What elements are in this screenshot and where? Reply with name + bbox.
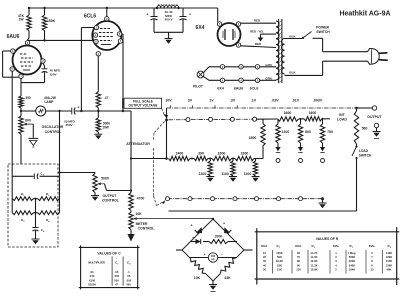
wire grid bus 6AU6-6CL6 bbox=[28, 39, 97, 41]
pin bottom of 6CL6 bbox=[96, 52, 100, 56]
svg-text:X1000: X1000 bbox=[88, 283, 96, 287]
contact deck2 grounded bbox=[319, 197, 327, 208]
svg-text:1100: 1100 bbox=[221, 172, 229, 176]
diode meter branch bbox=[192, 236, 201, 244]
svg-text:11.3K: 11.3K bbox=[310, 263, 317, 267]
wire rail2 from trunk2 bbox=[131, 158, 167, 160]
svg-text:.01V: .01V bbox=[292, 99, 300, 103]
label 3V bbox=[188, 99, 193, 103]
svg-text:1100: 1100 bbox=[199, 172, 207, 176]
svg-text:1600: 1600 bbox=[218, 152, 226, 156]
title Heathkit AG-9A bbox=[339, 11, 390, 18]
svg-text:43K: 43K bbox=[224, 276, 231, 280]
svg-text:Heathkit AG-9A: Heathkit AG-9A bbox=[339, 11, 390, 18]
svg-text:143K: 143K bbox=[386, 251, 392, 255]
label BLK bottom bbox=[289, 71, 296, 75]
table VALUES OF C bbox=[79, 245, 140, 289]
svg-text:560K: 560K bbox=[349, 255, 355, 259]
resistor 5000 10W bbox=[96, 111, 110, 134]
svg-text:X10: X10 bbox=[90, 274, 95, 278]
resistor 560 INT LOAD bbox=[354, 107, 367, 144]
svg-text:10V: 10V bbox=[165, 99, 172, 103]
svg-text:150K: 150K bbox=[47, 19, 56, 23]
svg-text:+: + bbox=[78, 106, 80, 110]
contact 1V deck1 bbox=[209, 117, 213, 121]
capacitor 40MFD 150V bbox=[39, 65, 61, 76]
dashed gang link upper bbox=[154, 122, 165, 141]
terminal OUTPUT bbox=[367, 106, 382, 119]
svg-text:20: 20 bbox=[263, 255, 266, 259]
shunt resistor 1100 d bbox=[276, 119, 290, 147]
svg-text:2400: 2400 bbox=[176, 152, 184, 156]
ground 5000 resistor bbox=[94, 134, 102, 139]
potentiometer 600 OSCILLATOR CONTROL bbox=[19, 116, 64, 138]
wire pin1 to left bus bbox=[3, 50, 11, 52]
svg-text:DIAL: DIAL bbox=[261, 244, 268, 248]
svg-text:14.3K: 14.3K bbox=[310, 255, 317, 259]
svg-text:6X4: 6X4 bbox=[217, 87, 223, 91]
svg-text:RED: RED bbox=[254, 19, 261, 23]
svg-text:.1V: .1V bbox=[251, 99, 257, 103]
svg-text:12.3K: 12.3K bbox=[310, 259, 317, 263]
wire 6CL6 grid feedback bbox=[80, 28, 94, 113]
tick 1V bbox=[214, 105, 216, 108]
svg-text:14.7K: 14.7K bbox=[310, 251, 317, 255]
ground shunt a bbox=[206, 177, 214, 182]
contact below shunt f bbox=[321, 159, 325, 163]
pin 4 6AU6 heater bbox=[239, 78, 243, 82]
transformer core bbox=[278, 19, 282, 83]
wire 6CL6 top pin to B+ bbox=[106, 7, 108, 17]
wire bridge inner top bbox=[190, 241, 237, 243]
wire bridge left stub bbox=[176, 249, 182, 251]
wire twin-T top branch bbox=[12, 175, 59, 177]
wire twin-T mid junction2 bbox=[34, 212, 38, 214]
resistor 390 ladder bbox=[194, 152, 208, 161]
resistor 1600 ladder b bbox=[235, 152, 254, 161]
meter 200uA bbox=[204, 253, 224, 262]
wire 6CL6 cathode down bbox=[97, 56, 99, 92]
svg-text:1V: 1V bbox=[209, 99, 214, 103]
contact below shunt e bbox=[299, 159, 303, 163]
wire subnet rail a bbox=[257, 118, 278, 120]
label 6AU6 bbox=[7, 34, 20, 40]
svg-text:.05: .05 bbox=[127, 274, 131, 278]
svg-text:70: 70 bbox=[297, 255, 300, 259]
wire lamp to cap bbox=[46, 110, 72, 112]
svg-text:450 V: 450 V bbox=[164, 17, 173, 21]
filter choke bbox=[156, 4, 180, 9]
wire B+ top rail bbox=[29, 7, 218, 9]
wire rail2 b bbox=[208, 158, 212, 160]
svg-text:80: 80 bbox=[297, 259, 300, 263]
svg-text:10.9K: 10.9K bbox=[310, 267, 317, 271]
svg-text:6X4: 6X4 bbox=[196, 25, 205, 31]
arrow ground shunt e bbox=[298, 147, 303, 152]
resistor 1600 ladder a bbox=[212, 152, 232, 161]
svg-text:OUTPUT: OUTPUT bbox=[367, 115, 382, 119]
pin 5 6CL6 heater bbox=[255, 78, 259, 82]
svg-text:.003V: .003V bbox=[313, 99, 323, 103]
capacitor 40-40 MFD 450V left bbox=[147, 8, 158, 32]
pin upper-right of 6CL6 bbox=[117, 32, 121, 36]
svg-text:1800: 1800 bbox=[249, 136, 257, 140]
resistor R3 twin-T bbox=[12, 211, 33, 223]
wire left bus down to twin-T bbox=[11, 77, 13, 176]
svg-text:47: 47 bbox=[115, 283, 118, 287]
svg-text:1600: 1600 bbox=[284, 111, 292, 115]
resistor 4700 bbox=[129, 193, 145, 211]
svg-text:LOAD: LOAD bbox=[359, 149, 369, 153]
ground shunt c bbox=[252, 177, 260, 182]
svg-text:+: + bbox=[39, 65, 41, 69]
svg-text:DIAL: DIAL bbox=[369, 244, 376, 248]
label .3V bbox=[230, 99, 236, 103]
wire trunk2 plate line bbox=[130, 111, 132, 193]
contact deck2 4 bbox=[233, 197, 237, 201]
svg-text:1W: 1W bbox=[18, 18, 24, 22]
svg-text:10W: 10W bbox=[102, 125, 109, 129]
svg-text:6CL6: 6CL6 bbox=[250, 87, 259, 91]
wire bridge right stub bbox=[244, 249, 253, 251]
wire B+ down to 6X4 pin7 bbox=[217, 8, 219, 22]
label 6CL6 bbox=[84, 14, 96, 20]
svg-text:750: 750 bbox=[327, 130, 333, 134]
wire meter line to bridge top bbox=[212, 218, 214, 220]
resistor 47K 1W bbox=[18, 14, 31, 31]
svg-text:390: 390 bbox=[25, 96, 31, 100]
wire cap bottom rail bbox=[154, 31, 183, 33]
label ATTENUATOR bbox=[126, 142, 150, 146]
label 6AU6 heater bbox=[234, 87, 243, 91]
svg-text:1600: 1600 bbox=[309, 111, 317, 115]
label 10V bbox=[165, 99, 172, 103]
power switch bbox=[302, 26, 330, 40]
svg-text:150V: 150V bbox=[49, 72, 56, 76]
node osc junction bbox=[20, 108, 22, 116]
svg-text:100K: 100K bbox=[276, 251, 282, 255]
svg-text:BLK: BLK bbox=[289, 71, 296, 75]
FULL SCALE OUTPUT VOLTAGE box bbox=[123, 98, 162, 108]
svg-text:600: 600 bbox=[25, 119, 31, 123]
potentiometer 5000 OUTPUT CONTROL bbox=[93, 173, 131, 203]
tick 3V bbox=[192, 105, 194, 108]
resistor 2000 bbox=[209, 235, 228, 244]
wire C4 to ground bbox=[35, 231, 37, 239]
pin 7 of 6X4 bbox=[217, 22, 221, 26]
wire twin-T left node bbox=[11, 176, 13, 212]
svg-text:560: 560 bbox=[362, 127, 368, 131]
wire heater bottom rail bbox=[203, 76, 276, 80]
svg-text:CONTROL: CONTROL bbox=[45, 130, 62, 134]
wire left bracket bbox=[3, 51, 19, 77]
tube 6X4 envelope bbox=[218, 23, 241, 46]
pin upper-left of 6CL6 bbox=[94, 25, 98, 29]
transformer secondary winding bbox=[276, 21, 279, 80]
pin 6 of 6AU6 bbox=[25, 41, 29, 45]
label GRN top bbox=[265, 63, 271, 67]
shunt resistor 1100 b bbox=[221, 159, 235, 177]
capacitor C4 bbox=[33, 228, 46, 234]
AC line plug bbox=[368, 49, 388, 65]
svg-text:1600: 1600 bbox=[241, 152, 249, 156]
svg-text:47: 47 bbox=[105, 96, 109, 100]
wire pin1 to transformer RED bbox=[241, 19, 276, 24]
wire subnet rail b bbox=[299, 118, 305, 120]
svg-text:OUTPUT VOLTAGE: OUTPUT VOLTAGE bbox=[129, 104, 158, 108]
wire contact rail deck1 bbox=[169, 118, 253, 121]
wire rail2 a bbox=[190, 158, 194, 160]
svg-text:OUTPUT: OUTPUT bbox=[103, 194, 118, 198]
wire common line bbox=[169, 210, 357, 212]
svg-text:6CL6: 6CL6 bbox=[84, 14, 96, 20]
svg-text:194K: 194K bbox=[349, 267, 355, 271]
svg-text:800: 800 bbox=[305, 130, 311, 134]
svg-text:INT: INT bbox=[339, 113, 346, 117]
svg-text:MULTIPLIER: MULTIPLIER bbox=[88, 260, 105, 264]
svg-text:+: + bbox=[147, 13, 149, 17]
svg-text:1100: 1100 bbox=[282, 130, 290, 134]
svg-text:BLK: BLK bbox=[289, 34, 296, 38]
wire heater top rail bbox=[203, 67, 276, 73]
pin 1 of 6X4 bbox=[236, 22, 240, 26]
svg-text:+: + bbox=[204, 253, 206, 257]
svg-text:µA: µA bbox=[211, 257, 214, 261]
contact deck2 7 bbox=[299, 197, 303, 201]
resistor 390 bbox=[19, 96, 31, 108]
dashed box twin-T bbox=[8, 164, 58, 247]
wire load switch down bbox=[356, 158, 358, 211]
wire twin-T mid junction bbox=[34, 198, 38, 200]
tube 6X4 internals bbox=[223, 29, 235, 40]
resistor R4 twin-T bbox=[38, 211, 60, 223]
label 1V bbox=[209, 99, 214, 103]
svg-text:50: 50 bbox=[263, 267, 266, 271]
svg-text:40: 40 bbox=[263, 263, 266, 267]
svg-text:115K: 115K bbox=[386, 259, 392, 263]
svg-text:100: 100 bbox=[296, 267, 301, 271]
wire output line dash-dot bbox=[167, 107, 357, 109]
ground twin-T bbox=[32, 239, 40, 244]
tube 6AU6 envelope bbox=[13, 46, 42, 75]
svg-text:RED - YEL: RED - YEL bbox=[250, 29, 264, 33]
pin 6 of 6X4 bbox=[236, 43, 240, 47]
contact deck2 6 bbox=[277, 197, 281, 201]
shunt resistor 800 bbox=[298, 119, 311, 147]
pin 5 of 6AU6 bbox=[10, 67, 14, 71]
tick 10V bbox=[170, 105, 172, 108]
contact deck2 1 bbox=[166, 197, 170, 201]
wire 47K top stub bbox=[28, 7, 30, 15]
resistor 1600 subnet a bbox=[278, 111, 299, 121]
svg-text:23.2K: 23.2K bbox=[276, 259, 283, 263]
svg-text:90: 90 bbox=[297, 263, 300, 267]
svg-text:RED: RED bbox=[255, 42, 262, 46]
svg-text:30: 30 bbox=[263, 259, 266, 263]
wire pin5 stub bbox=[11, 71, 13, 77]
resistor 150K bbox=[42, 15, 55, 31]
svg-text:350V: 350V bbox=[65, 123, 72, 127]
pin 4 6CL6 heater bbox=[255, 65, 259, 69]
svg-text:10K: 10K bbox=[194, 276, 201, 280]
label 6X4 bbox=[196, 25, 205, 31]
contact deck2 5 bbox=[255, 197, 259, 201]
svg-text:+: + bbox=[192, 236, 194, 240]
svg-text:−: − bbox=[221, 253, 223, 257]
svg-text:+: + bbox=[189, 13, 191, 17]
svg-text:PILOT: PILOT bbox=[193, 85, 204, 89]
contact below shunt d bbox=[276, 159, 280, 163]
shunt resistor 750 bbox=[320, 119, 333, 147]
svg-text:99K: 99K bbox=[387, 267, 392, 271]
svg-text:15K: 15K bbox=[277, 267, 282, 271]
svg-text:500: 500 bbox=[126, 283, 131, 287]
label GRN bottom bbox=[265, 77, 271, 81]
contact deck2 2 bbox=[188, 197, 192, 201]
svg-text:OSCILLATOR: OSCILLATOR bbox=[42, 125, 64, 129]
load switch bbox=[352, 144, 372, 159]
pin 4 6X4 heater bbox=[220, 78, 224, 82]
table VALUES OF R bbox=[255, 227, 400, 285]
svg-text:VALUES OF R: VALUES OF R bbox=[316, 237, 339, 241]
wire subnet rail end bbox=[322, 118, 331, 120]
wire trunk deck1 to rail2 bbox=[165, 120, 168, 160]
pin 1 of 6AU6 bbox=[11, 49, 15, 53]
pin 2 of 6AU6 bbox=[41, 59, 45, 63]
label INT LOAD bbox=[337, 113, 347, 122]
diode bridge upper-right bbox=[223, 222, 231, 235]
dashed gang link lower bbox=[154, 148, 166, 206]
resistor 1800 riser bbox=[249, 119, 266, 158]
svg-text:+: + bbox=[190, 224, 192, 228]
lamp 49A-2W bbox=[36, 96, 56, 116]
wire rail2 c bbox=[232, 158, 236, 160]
label .01V bbox=[292, 99, 300, 103]
wire 600 bottom into network bbox=[20, 134, 22, 164]
label 40-40 MFD 450V bbox=[164, 10, 173, 21]
wire cathode cap branch bbox=[43, 63, 45, 69]
svg-text:500: 500 bbox=[114, 278, 119, 282]
svg-text:5000: 5000 bbox=[101, 177, 109, 181]
resistor 2400 bbox=[169, 152, 191, 161]
pin 7 of 6AU6 bbox=[19, 74, 23, 78]
pin mid-left of 6CL6 bbox=[93, 33, 97, 37]
arrow ground shunt d bbox=[275, 147, 280, 152]
tick .3V bbox=[236, 105, 238, 108]
svg-text:LOAD: LOAD bbox=[337, 118, 347, 122]
wiper arrow from box bbox=[162, 108, 168, 118]
svg-text:60: 60 bbox=[297, 251, 300, 255]
pilot lamp bbox=[193, 71, 204, 88]
svg-text:CONTROL: CONTROL bbox=[138, 227, 155, 231]
transformer primary winding bbox=[282, 39, 285, 74]
svg-text:6AU6: 6AU6 bbox=[234, 87, 243, 91]
wire contact rail deck2 bbox=[168, 198, 323, 200]
shunt resistor 1100 a bbox=[199, 159, 213, 177]
resistor R1 twin-T bbox=[12, 192, 33, 201]
arrow ground shunt f bbox=[320, 147, 325, 152]
resistor R2 twin-T bbox=[38, 192, 60, 201]
pin 3 6X4 heater bbox=[220, 65, 224, 69]
svg-text:10: 10 bbox=[263, 251, 266, 255]
svg-text:DIAL: DIAL bbox=[333, 244, 340, 248]
resistor 47 cathode bbox=[96, 92, 108, 111]
label .1V bbox=[251, 99, 257, 103]
tube 6CL6 envelope bbox=[92, 21, 121, 50]
resistor 1600 subnet b bbox=[304, 111, 322, 121]
contact 3V deck1 bbox=[186, 118, 190, 122]
svg-text:CONTROL: CONTROL bbox=[102, 199, 119, 203]
wire output line to wiper node bbox=[166, 108, 168, 120]
wire cap to pin7 node bbox=[21, 72, 45, 82]
capacitor C3 bbox=[34, 172, 44, 180]
wire primary top to switch bbox=[285, 38, 303, 40]
svg-text:50K: 50K bbox=[277, 255, 282, 259]
svg-text:.03V: .03V bbox=[271, 99, 279, 103]
svg-text:VALUES OF C: VALUES OF C bbox=[97, 252, 121, 256]
wire 150K bottom bbox=[44, 31, 46, 41]
pin top of 6CL6 bbox=[105, 17, 109, 21]
diode bridge upper-left bbox=[190, 224, 202, 235]
label 6CL6 heater bbox=[250, 87, 259, 91]
wire output line solid end bbox=[357, 107, 373, 109]
pin lower-left of 6CL6 bbox=[94, 39, 98, 43]
wire cap to trunk bbox=[75, 110, 131, 112]
resistor 10K bridge bbox=[191, 259, 206, 281]
wire 150K top stub bbox=[43, 7, 45, 15]
wire 6CL6 plate right bbox=[122, 34, 123, 111]
bridge diamond edges bbox=[182, 219, 244, 281]
label BLK top bbox=[289, 34, 296, 38]
contact .3V deck1 bbox=[230, 117, 234, 121]
svg-text:LAMP: LAMP bbox=[44, 100, 54, 104]
svg-text:X100: X100 bbox=[89, 278, 96, 282]
svg-text:METER: METER bbox=[136, 222, 148, 226]
wire rail2 end corner bbox=[254, 158, 263, 160]
tube 6CL6 internals bbox=[99, 29, 113, 45]
arrow below meter control bbox=[127, 230, 134, 242]
svg-text:POWER: POWER bbox=[316, 26, 329, 30]
tube 6AU6 internals bbox=[20, 54, 33, 70]
svg-text:240K: 240K bbox=[349, 263, 355, 267]
wire 47K bottom to pin6 bbox=[28, 31, 30, 41]
svg-text:DIAL: DIAL bbox=[295, 244, 302, 248]
svg-text:6AU6: 6AU6 bbox=[7, 34, 20, 40]
wire twin-T center leg bbox=[35, 199, 37, 228]
svg-text:18K: 18K bbox=[277, 263, 282, 267]
ground oscillator control bbox=[28, 138, 38, 147]
label .003V bbox=[313, 99, 323, 103]
shunt resistor 1100 c bbox=[244, 159, 258, 177]
label .03V bbox=[271, 99, 279, 103]
svg-text:320K: 320K bbox=[349, 259, 355, 263]
wire twin-T out to pot bbox=[58, 171, 95, 173]
ground shunt b bbox=[229, 177, 237, 182]
svg-text:SWITCH: SWITCH bbox=[359, 154, 372, 158]
svg-text:GRN: GRN bbox=[265, 77, 271, 81]
ground filter caps bbox=[165, 32, 173, 43]
svg-text:10: 10 bbox=[371, 267, 374, 271]
pin 3 6AU6 heater bbox=[239, 65, 243, 69]
svg-text:.3V: .3V bbox=[230, 99, 236, 103]
svg-text:.005: .005 bbox=[114, 274, 120, 278]
contact .1V deck1 bbox=[253, 117, 257, 121]
svg-text:106K: 106K bbox=[386, 263, 392, 267]
contact deck2 3 bbox=[211, 197, 215, 201]
wire twin-T right side bbox=[59, 111, 61, 176]
wire bridge inner meter bbox=[189, 257, 237, 259]
capacitor 40-40 MFD 450V right bbox=[180, 8, 192, 32]
